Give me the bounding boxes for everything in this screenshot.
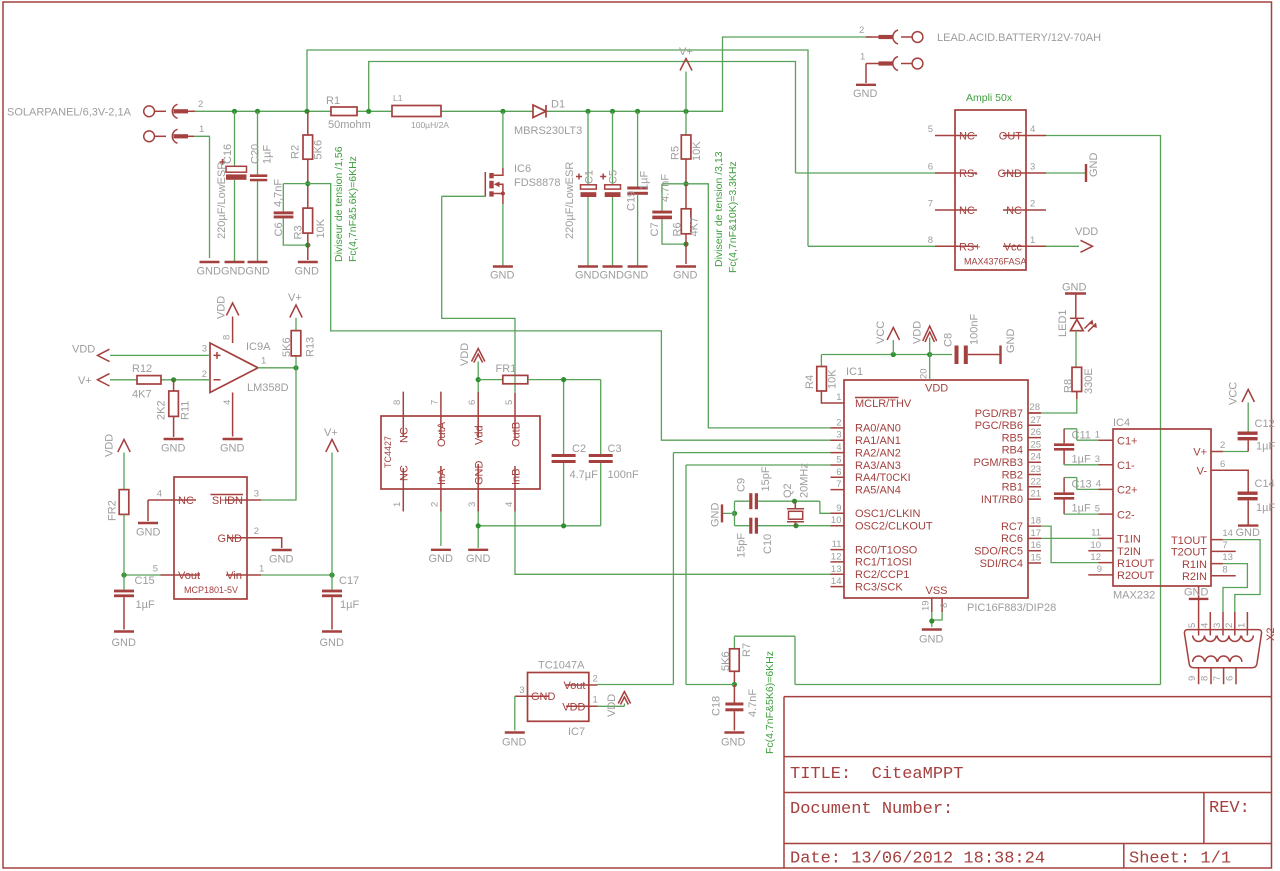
svg-text:2: 2: [202, 369, 207, 380]
svg-text:NC: NC: [178, 495, 194, 507]
svg-text:C5: C5: [608, 170, 620, 184]
svg-text:PGD/RB7: PGD/RB7: [975, 408, 1023, 420]
svg-text:5: 5: [1095, 503, 1100, 514]
svg-text:SDI/RC4: SDI/RC4: [980, 558, 1023, 570]
svg-text:FDS8878: FDS8878: [514, 177, 560, 189]
svg-text:V+: V+: [78, 375, 92, 387]
svg-text:NC: NC: [399, 427, 411, 443]
svg-text:IC7: IC7: [568, 726, 585, 738]
svg-text:RC1/T1OSI: RC1/T1OSI: [855, 557, 912, 569]
svg-text:R1OUT: R1OUT: [1117, 558, 1155, 570]
svg-text:VDD: VDD: [104, 434, 116, 457]
svg-text:3: 3: [467, 502, 478, 507]
svg-text:RB5: RB5: [1002, 432, 1023, 444]
svg-text:27: 27: [1031, 415, 1042, 426]
svg-text:R13: R13: [305, 337, 317, 357]
svg-text:GND: GND: [112, 637, 137, 649]
svg-text:C3: C3: [608, 443, 622, 455]
svg-text:4.7nF: 4.7nF: [747, 689, 759, 717]
svg-text:GND: GND: [710, 503, 722, 528]
svg-text:GND: GND: [295, 266, 320, 278]
svg-text:REV:: REV:: [1209, 799, 1250, 818]
svg-text:3: 3: [836, 430, 841, 441]
svg-text:1: 1: [1237, 623, 1248, 628]
svg-text:VCC: VCC: [875, 321, 887, 344]
svg-text:Diviseur de tension /1,56: Diviseur de tension /1,56: [333, 146, 345, 262]
svg-text:L1: L1: [393, 93, 403, 103]
svg-text:1: 1: [836, 392, 841, 403]
svg-text:GNDGNDGND: GNDGNDGND: [575, 270, 648, 282]
svg-text:VDD: VDD: [925, 383, 948, 395]
svg-text:3: 3: [1095, 454, 1100, 465]
svg-text:LEAD.ACID.BATTERY/12V-70AH: LEAD.ACID.BATTERY/12V-70AH: [937, 32, 1101, 44]
svg-text:Document Number:: Document Number:: [790, 800, 953, 819]
svg-text:8: 8: [392, 400, 403, 405]
svg-text:13: 13: [1222, 552, 1233, 563]
svg-text:1: 1: [860, 52, 865, 63]
svg-text:4: 4: [1200, 623, 1211, 628]
svg-text:50mohm: 50mohm: [328, 119, 371, 131]
svg-text:VDD: VDD: [72, 344, 95, 356]
svg-text:5K6: 5K6: [313, 140, 325, 160]
svg-text:T2OUT: T2OUT: [1171, 547, 1207, 559]
svg-text:R6: R6: [672, 222, 684, 236]
svg-text:GND: GND: [220, 443, 245, 455]
svg-text:5K6: 5K6: [720, 651, 732, 671]
svg-text:10K: 10K: [691, 141, 703, 161]
svg-text:R4: R4: [804, 375, 816, 389]
svg-text:7: 7: [1212, 676, 1223, 681]
svg-text:GND: GND: [1184, 587, 1209, 599]
svg-text:1µF: 1µF: [1256, 441, 1275, 453]
svg-text:R3: R3: [293, 225, 305, 239]
svg-text:NC: NC: [959, 205, 975, 217]
svg-text:330E: 330E: [1083, 368, 1095, 394]
svg-text:16: 16: [1031, 540, 1042, 551]
svg-text:OutB: OutB: [511, 422, 523, 447]
svg-text:OUT: OUT: [999, 131, 1023, 143]
svg-text:TC4427: TC4427: [383, 436, 393, 468]
svg-text:GND: GND: [853, 88, 878, 100]
svg-text:Diviseur de tension /3,13: Diviseur de tension /3,13: [713, 151, 725, 267]
svg-text:T2IN: T2IN: [1117, 546, 1141, 558]
svg-text:RA5/AN4: RA5/AN4: [855, 484, 901, 496]
svg-text:Vout: Vout: [563, 680, 585, 692]
svg-text:MBRS230LT3: MBRS230LT3: [514, 125, 582, 137]
svg-text:RA0/AN0: RA0/AN0: [855, 423, 901, 435]
svg-text:7: 7: [836, 479, 841, 490]
svg-text:R7: R7: [741, 643, 753, 657]
svg-text:10K: 10K: [827, 369, 839, 389]
svg-text:1: 1: [199, 124, 204, 135]
svg-text:RA4/T0CKI: RA4/T0CKI: [855, 472, 911, 484]
svg-text:1µF: 1µF: [1072, 503, 1091, 515]
svg-text:VDD: VDD: [562, 701, 585, 713]
svg-text:MCLR/THV: MCLR/THV: [855, 398, 912, 410]
svg-text:9: 9: [836, 503, 841, 514]
svg-text:Sheet: 1/1: Sheet: 1/1: [1129, 850, 1231, 869]
svg-text:RC7: RC7: [1001, 521, 1023, 533]
svg-text:OutA: OutA: [436, 421, 448, 447]
svg-text:Vdd: Vdd: [474, 425, 486, 445]
svg-text:GND: GND: [269, 554, 294, 566]
svg-text:1µF: 1µF: [1072, 454, 1091, 466]
svg-text:R1: R1: [326, 95, 340, 107]
svg-text:R2OUT: R2OUT: [1117, 570, 1155, 582]
svg-text:4: 4: [504, 502, 515, 507]
svg-text:LED1: LED1: [1057, 309, 1069, 337]
svg-text:3: 3: [254, 489, 259, 500]
svg-text:T1IN: T1IN: [1117, 534, 1141, 546]
svg-text:RS+: RS+: [959, 242, 981, 254]
svg-text:GND: GND: [1236, 527, 1261, 539]
svg-text:Vout: Vout: [178, 570, 200, 582]
svg-text:NC: NC: [399, 465, 411, 481]
svg-text:PIC16F883/DIP28: PIC16F883/DIP28: [967, 602, 1056, 614]
svg-text:FR1: FR1: [496, 363, 517, 375]
svg-text:V+: V+: [288, 292, 302, 304]
svg-text:2: 2: [859, 25, 864, 36]
svg-text:14: 14: [831, 576, 842, 587]
svg-text:SDO/RC5: SDO/RC5: [974, 546, 1023, 558]
svg-text:GND: GND: [490, 270, 515, 282]
svg-text:14: 14: [1222, 528, 1233, 539]
svg-text:2: 2: [836, 417, 841, 428]
svg-text:4: 4: [836, 442, 841, 453]
svg-text:28: 28: [1029, 402, 1040, 413]
svg-text:21: 21: [1031, 489, 1042, 500]
svg-text:7: 7: [1222, 540, 1227, 551]
svg-text:8: 8: [1200, 676, 1211, 681]
svg-text:1: 1: [261, 356, 266, 367]
svg-text:100nF: 100nF: [608, 469, 639, 481]
svg-text:18: 18: [1031, 516, 1042, 527]
svg-text:5K6: 5K6: [281, 337, 293, 357]
svg-text:VSS: VSS: [926, 585, 948, 597]
svg-text:OSC1/CLKIN: OSC1/CLKIN: [855, 508, 920, 520]
svg-text:4.7nF: 4.7nF: [660, 174, 672, 202]
svg-text:3: 3: [1212, 623, 1223, 628]
svg-text:8: 8: [222, 335, 233, 340]
svg-text:GND: GND: [502, 737, 527, 749]
svg-text:IC1: IC1: [846, 366, 863, 378]
svg-text:6: 6: [467, 400, 478, 405]
svg-text:6: 6: [1225, 676, 1236, 681]
svg-text:2: 2: [198, 99, 203, 110]
svg-text:24: 24: [1031, 452, 1042, 463]
svg-text:MCP1801-5V: MCP1801-5V: [184, 585, 238, 595]
svg-text:1µF: 1µF: [639, 171, 651, 190]
svg-text:Date: 13/06/2012 18:38:24: Date: 13/06/2012 18:38:24: [790, 850, 1045, 869]
svg-text:2: 2: [254, 526, 259, 537]
svg-text:C1: C1: [584, 170, 596, 184]
svg-text:1µF: 1µF: [136, 599, 155, 611]
svg-text:100µH/2A: 100µH/2A: [411, 120, 449, 130]
svg-text:GND: GND: [218, 533, 243, 545]
svg-text:GND: GND: [531, 691, 556, 703]
svg-text:RB1: RB1: [1002, 482, 1023, 494]
svg-text:1: 1: [1030, 235, 1035, 246]
svg-text:NC: NC: [1006, 205, 1022, 217]
svg-text:2K2: 2K2: [156, 400, 168, 420]
svg-text:Vcc: Vcc: [1004, 242, 1023, 254]
svg-text:1: 1: [1095, 430, 1100, 441]
svg-text:8: 8: [1222, 564, 1227, 575]
svg-text:PGC/RB6: PGC/RB6: [975, 420, 1023, 432]
svg-text:C12: C12: [1255, 418, 1275, 430]
svg-text:11: 11: [1091, 528, 1101, 539]
svg-text:1µF: 1µF: [262, 145, 274, 164]
svg-text:1: 1: [593, 695, 598, 706]
svg-text:MAX4376FASA: MAX4376FASA: [964, 257, 1027, 267]
svg-text:RS-: RS-: [959, 168, 978, 180]
svg-text:GND: GND: [429, 553, 454, 565]
svg-text:Vin: Vin: [226, 570, 242, 582]
svg-text:RC0/T1OSO: RC0/T1OSO: [855, 544, 918, 556]
svg-text:6: 6: [836, 467, 841, 478]
svg-text:4: 4: [157, 489, 162, 500]
svg-text:Fc(4.7nF&5K6)=6KHz: Fc(4.7nF&5K6)=6KHz: [764, 651, 776, 754]
svg-text:C1+: C1+: [1117, 435, 1138, 447]
svg-text:GND: GND: [320, 637, 345, 649]
svg-text:3: 3: [1030, 162, 1035, 173]
svg-text:4: 4: [222, 400, 233, 405]
svg-text:100nF: 100nF: [969, 314, 981, 345]
svg-text:26: 26: [1031, 427, 1042, 438]
svg-text:C6: C6: [273, 222, 285, 236]
svg-text:8: 8: [939, 603, 950, 608]
svg-text:C16: C16: [222, 144, 234, 164]
svg-text:3: 3: [519, 685, 524, 696]
svg-text:R8: R8: [1063, 379, 1075, 393]
svg-text:GND: GND: [1088, 153, 1100, 178]
svg-text:GND: GND: [721, 737, 746, 749]
svg-text:C17: C17: [339, 575, 359, 587]
svg-text:15pF: 15pF: [760, 466, 772, 491]
svg-text:11: 11: [832, 539, 842, 550]
svg-text:1: 1: [259, 564, 264, 575]
svg-text:10: 10: [1090, 540, 1101, 551]
svg-text:VDD: VDD: [606, 694, 618, 717]
svg-text:220µF/LowESR: 220µF/LowESR: [216, 162, 228, 239]
svg-text:19: 19: [921, 600, 932, 611]
svg-text:6: 6: [928, 162, 933, 173]
svg-text:GND: GND: [919, 634, 944, 646]
svg-text:LM358D: LM358D: [247, 382, 289, 394]
svg-text:SOLARPANEL/6,3V-2,1A: SOLARPANEL/6,3V-2,1A: [7, 107, 132, 119]
svg-text:15: 15: [1031, 553, 1042, 564]
svg-text:Fc(4,7nF&10K)=3.3KHz: Fc(4,7nF&10K)=3.3KHz: [727, 161, 739, 273]
svg-text:Ampli 50x: Ampli 50x: [966, 92, 1013, 104]
svg-text:C19: C19: [626, 191, 638, 211]
svg-text:4.7µF: 4.7µF: [570, 469, 599, 481]
svg-text:6: 6: [1220, 459, 1225, 470]
svg-text:GND: GND: [474, 461, 486, 486]
svg-text:GND: GND: [136, 527, 161, 539]
svg-text:17: 17: [1031, 528, 1042, 539]
svg-text:C2: C2: [572, 443, 586, 455]
svg-text:GND: GND: [998, 168, 1023, 180]
svg-text:IC9A: IC9A: [246, 341, 271, 353]
svg-text:C15: C15: [135, 575, 155, 587]
svg-text:VDD: VDD: [912, 321, 924, 344]
svg-text:12: 12: [831, 551, 842, 562]
svg-text:NC: NC: [959, 131, 975, 143]
svg-text:C2-: C2-: [1117, 509, 1135, 521]
svg-text:4K7: 4K7: [689, 217, 701, 237]
svg-text:VDD: VDD: [459, 343, 471, 366]
svg-text:23: 23: [1031, 464, 1042, 475]
svg-text:4,7nF: 4,7nF: [273, 179, 285, 207]
svg-text:RB2: RB2: [1002, 469, 1023, 481]
svg-text:RB4: RB4: [1002, 445, 1023, 457]
svg-text:R2: R2: [290, 145, 302, 159]
svg-text:15pF: 15pF: [736, 533, 748, 558]
svg-text:C7: C7: [649, 222, 661, 236]
svg-text:10K: 10K: [315, 218, 327, 238]
svg-text:4: 4: [1030, 124, 1035, 135]
svg-text:RC2/CCP1: RC2/CCP1: [855, 569, 909, 581]
svg-text:2: 2: [1220, 440, 1225, 451]
svg-text:R5: R5: [670, 146, 682, 160]
svg-text:GND: GND: [1005, 329, 1017, 354]
svg-text:8: 8: [928, 235, 933, 246]
svg-text:C18: C18: [711, 696, 723, 716]
svg-text:13: 13: [831, 564, 842, 575]
svg-text:V+: V+: [1193, 447, 1207, 459]
svg-text:IC6: IC6: [514, 163, 531, 175]
svg-text:TITLE: CiteaMPPT: TITLE: CiteaMPPT: [790, 765, 963, 784]
svg-text:1µF: 1µF: [1256, 502, 1275, 514]
svg-text:9: 9: [1187, 676, 1198, 681]
svg-text:2: 2: [430, 502, 441, 507]
svg-text:GNDGNDGND: GNDGNDGND: [197, 266, 270, 278]
svg-text:D1: D1: [551, 99, 565, 111]
svg-text:C8: C8: [943, 333, 955, 347]
svg-text:RC6: RC6: [1001, 533, 1023, 545]
svg-text:2: 2: [1224, 623, 1235, 628]
svg-text:7: 7: [430, 400, 441, 405]
svg-text:MAX232: MAX232: [1113, 590, 1155, 602]
svg-text:25: 25: [1031, 439, 1042, 450]
svg-text:V+: V+: [324, 427, 338, 439]
svg-text:Q2: Q2: [782, 483, 794, 498]
svg-text:RA2/AN2: RA2/AN2: [855, 447, 901, 459]
svg-text:R1IN: R1IN: [1182, 559, 1207, 571]
svg-text:10: 10: [831, 515, 842, 526]
svg-text:GND: GND: [466, 553, 491, 565]
svg-text:20: 20: [919, 368, 930, 379]
svg-text:C11: C11: [1072, 430, 1091, 442]
svg-text:5: 5: [153, 564, 158, 575]
svg-text:C9: C9: [736, 478, 748, 492]
svg-text:VCC: VCC: [1228, 382, 1240, 405]
svg-text:C1-: C1-: [1117, 460, 1135, 472]
svg-text:2: 2: [593, 674, 598, 685]
svg-text:5: 5: [928, 124, 933, 135]
svg-text:PGM/RB3: PGM/RB3: [973, 457, 1023, 469]
svg-text:5: 5: [504, 400, 515, 405]
svg-text:C14: C14: [1255, 478, 1275, 490]
svg-text:5: 5: [836, 455, 841, 466]
svg-text:3: 3: [202, 344, 207, 355]
svg-text:FR2: FR2: [107, 500, 119, 521]
svg-text:R12: R12: [132, 363, 152, 375]
svg-text:VDD: VDD: [216, 296, 228, 319]
svg-text:22: 22: [1031, 476, 1042, 487]
svg-text:OSC2/CLKOUT: OSC2/CLKOUT: [855, 521, 933, 533]
svg-text:TC1047A: TC1047A: [538, 660, 585, 672]
svg-text:InA: InA: [436, 468, 448, 485]
svg-text:RA1/AN1: RA1/AN1: [855, 435, 901, 447]
svg-text:Fc(4,7nF&5.6K)=6KHz: Fc(4,7nF&5.6K)=6KHz: [347, 156, 359, 262]
svg-text:SHDN: SHDN: [212, 495, 243, 507]
svg-text:InB: InB: [511, 468, 523, 485]
svg-text:R11: R11: [180, 401, 192, 420]
svg-text:INT/RB0: INT/RB0: [981, 494, 1023, 506]
svg-text:12: 12: [1090, 552, 1101, 563]
svg-text:IC4: IC4: [1113, 417, 1130, 429]
svg-text:C2+: C2+: [1117, 485, 1138, 497]
svg-text:RA3/AN3: RA3/AN3: [855, 460, 901, 472]
svg-text:220µF/LowESR: 220µF/LowESR: [564, 162, 576, 239]
svg-text:GND: GND: [161, 443, 186, 455]
svg-text:GND: GND: [1062, 282, 1087, 294]
svg-text:2: 2: [1030, 199, 1035, 210]
svg-text:C13: C13: [1072, 479, 1092, 491]
svg-text:1µF: 1µF: [340, 599, 359, 611]
svg-text:RC3/SCK: RC3/SCK: [855, 581, 903, 593]
svg-text:20MHz: 20MHz: [799, 463, 811, 498]
svg-text:C10: C10: [762, 534, 774, 554]
svg-text:7: 7: [928, 199, 933, 210]
svg-text:V-: V-: [1197, 466, 1208, 478]
svg-text:R2IN: R2IN: [1182, 571, 1207, 583]
svg-text:5: 5: [1187, 623, 1198, 628]
svg-text:GND: GND: [673, 270, 698, 282]
svg-text:9: 9: [1097, 564, 1102, 575]
svg-text:4: 4: [1096, 479, 1101, 490]
svg-text:C20: C20: [250, 144, 262, 164]
svg-text:4K7: 4K7: [132, 389, 152, 401]
svg-text:X2: X2: [1265, 628, 1277, 641]
svg-text:1: 1: [392, 502, 403, 507]
svg-text:V+: V+: [679, 46, 693, 58]
svg-text:T1OUT: T1OUT: [1171, 535, 1207, 547]
svg-text:VDD: VDD: [1075, 226, 1098, 238]
